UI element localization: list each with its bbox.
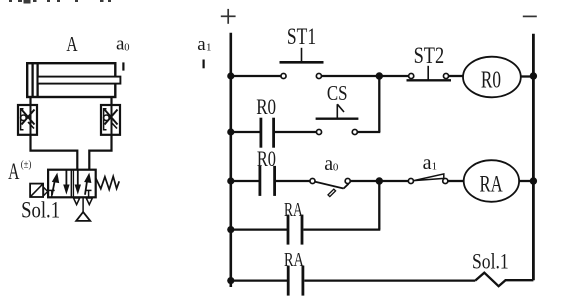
left rail <box>230 33 233 287</box>
piston <box>31 63 33 97</box>
rung 3 wire <box>276 180 310 182</box>
svg-text:ST1: ST1 <box>287 24 316 49</box>
piston rod <box>38 77 121 84</box>
rung 1 wire to coil <box>449 75 463 77</box>
junction dot rail rung3 <box>227 177 234 184</box>
svg-text:A: A <box>66 32 78 56</box>
relay coil RA <box>464 160 519 202</box>
rung 2 wire to branch <box>358 131 381 133</box>
svg-text:RA: RA <box>284 249 304 271</box>
vertical link rung1-rung2 <box>378 76 380 132</box>
4/2 directional valve body <box>48 170 96 198</box>
cylinder A body <box>27 63 115 97</box>
+ supply label <box>221 15 236 17</box>
valve arrow down (right cell) <box>75 170 81 194</box>
exhaust arrow right below valve <box>86 198 92 205</box>
solenoid actuator box <box>30 184 43 197</box>
svg-text:R0: R0 <box>481 68 501 94</box>
junction dot rail rung4 <box>227 226 234 233</box>
rung 2 wire middle <box>275 131 316 133</box>
svg-text:1: 1 <box>206 41 212 53</box>
solenoid diagonal <box>31 184 43 197</box>
relay coil R0 <box>463 57 521 98</box>
pushbutton CS (NO) <box>316 129 321 134</box>
cropped text fragments (top edge) <box>9 0 111 4</box>
exhaust arrow left below valve <box>74 198 80 205</box>
svg-text:(±): (±) <box>21 160 32 171</box>
contact RA (NO) rung5 <box>287 266 290 296</box>
exhaust line <box>82 198 84 213</box>
junction dot right rail rung1 <box>530 72 537 79</box>
blocked port T (right cell) <box>86 189 92 191</box>
rung 1 wire coil to rail <box>521 75 534 77</box>
- supply label <box>523 15 537 17</box>
svg-text:RA: RA <box>284 199 303 221</box>
junction dot right rail rung3 <box>530 177 537 184</box>
junction dot rung3 branch <box>376 177 383 184</box>
svg-text:a: a <box>197 34 206 55</box>
svg-text:0: 0 <box>333 162 339 174</box>
limit switch contact a1 (NC) <box>408 178 413 183</box>
exhaust triangle <box>76 212 90 221</box>
rung 5 wire left <box>231 279 287 281</box>
svg-text:RA: RA <box>480 171 503 196</box>
svg-text:R0: R0 <box>257 146 276 171</box>
junction dot rail rung5 <box>227 277 234 284</box>
rung 2 wire left <box>231 131 260 133</box>
svg-text:0: 0 <box>124 42 129 53</box>
svg-text:Sol.1: Sol.1 <box>472 249 509 274</box>
contact R0 (NO) rung3 <box>258 166 261 196</box>
vertical link rung3-rung4 <box>378 181 380 230</box>
right rail <box>532 34 535 281</box>
rung 4 wire right <box>303 228 380 230</box>
rung 4 wire left <box>231 228 287 230</box>
a1 position tick <box>203 60 205 69</box>
svg-text:R0: R0 <box>256 94 276 119</box>
wire cylinder to left flow valve to manifold <box>31 97 78 170</box>
rung 3 wire to coil <box>448 180 464 182</box>
rung 3 wire middle <box>351 180 409 182</box>
rung 1 wire left <box>231 75 281 77</box>
contact RA (NO) rung4 <box>287 215 290 245</box>
rung 1 wire middle <box>322 75 409 77</box>
contact R0 (NO) rung2 <box>259 118 262 148</box>
valve arrow down (left cell) <box>63 170 69 194</box>
valve arrow up (right cell) <box>84 173 91 195</box>
pushbutton ST2 (NC) <box>409 73 414 78</box>
svg-text:Sol.1: Sol.1 <box>21 198 60 223</box>
svg-text:1: 1 <box>432 161 438 173</box>
flow control valve right <box>101 105 120 135</box>
junction dot rail rung2 <box>227 128 234 135</box>
valve arrow up (left cell) <box>52 173 59 195</box>
solenoid Sol.1 load break <box>475 273 533 287</box>
blocked port T (left cell) <box>49 189 55 191</box>
svg-text:A: A <box>8 159 20 184</box>
junction dot rail rung1 <box>227 72 234 79</box>
a0 position tick <box>122 62 124 70</box>
wire cylinder to right flow valve to manifold <box>89 97 111 170</box>
return spring <box>96 176 120 189</box>
rung 3 wire coil to rail <box>519 180 533 182</box>
svg-text:a: a <box>423 152 432 174</box>
junction dot rung1 branch <box>376 72 383 79</box>
rung 3 wire left <box>231 180 259 182</box>
svg-text:CS: CS <box>327 81 348 105</box>
pushbutton ST1 (NO) <box>281 73 286 78</box>
rung 5 wire right <box>304 279 475 281</box>
pilot triangle <box>44 187 48 196</box>
limit switch contact a0 (NO) <box>310 178 315 183</box>
svg-text:ST2: ST2 <box>414 43 445 68</box>
flow control valve left <box>18 105 37 135</box>
